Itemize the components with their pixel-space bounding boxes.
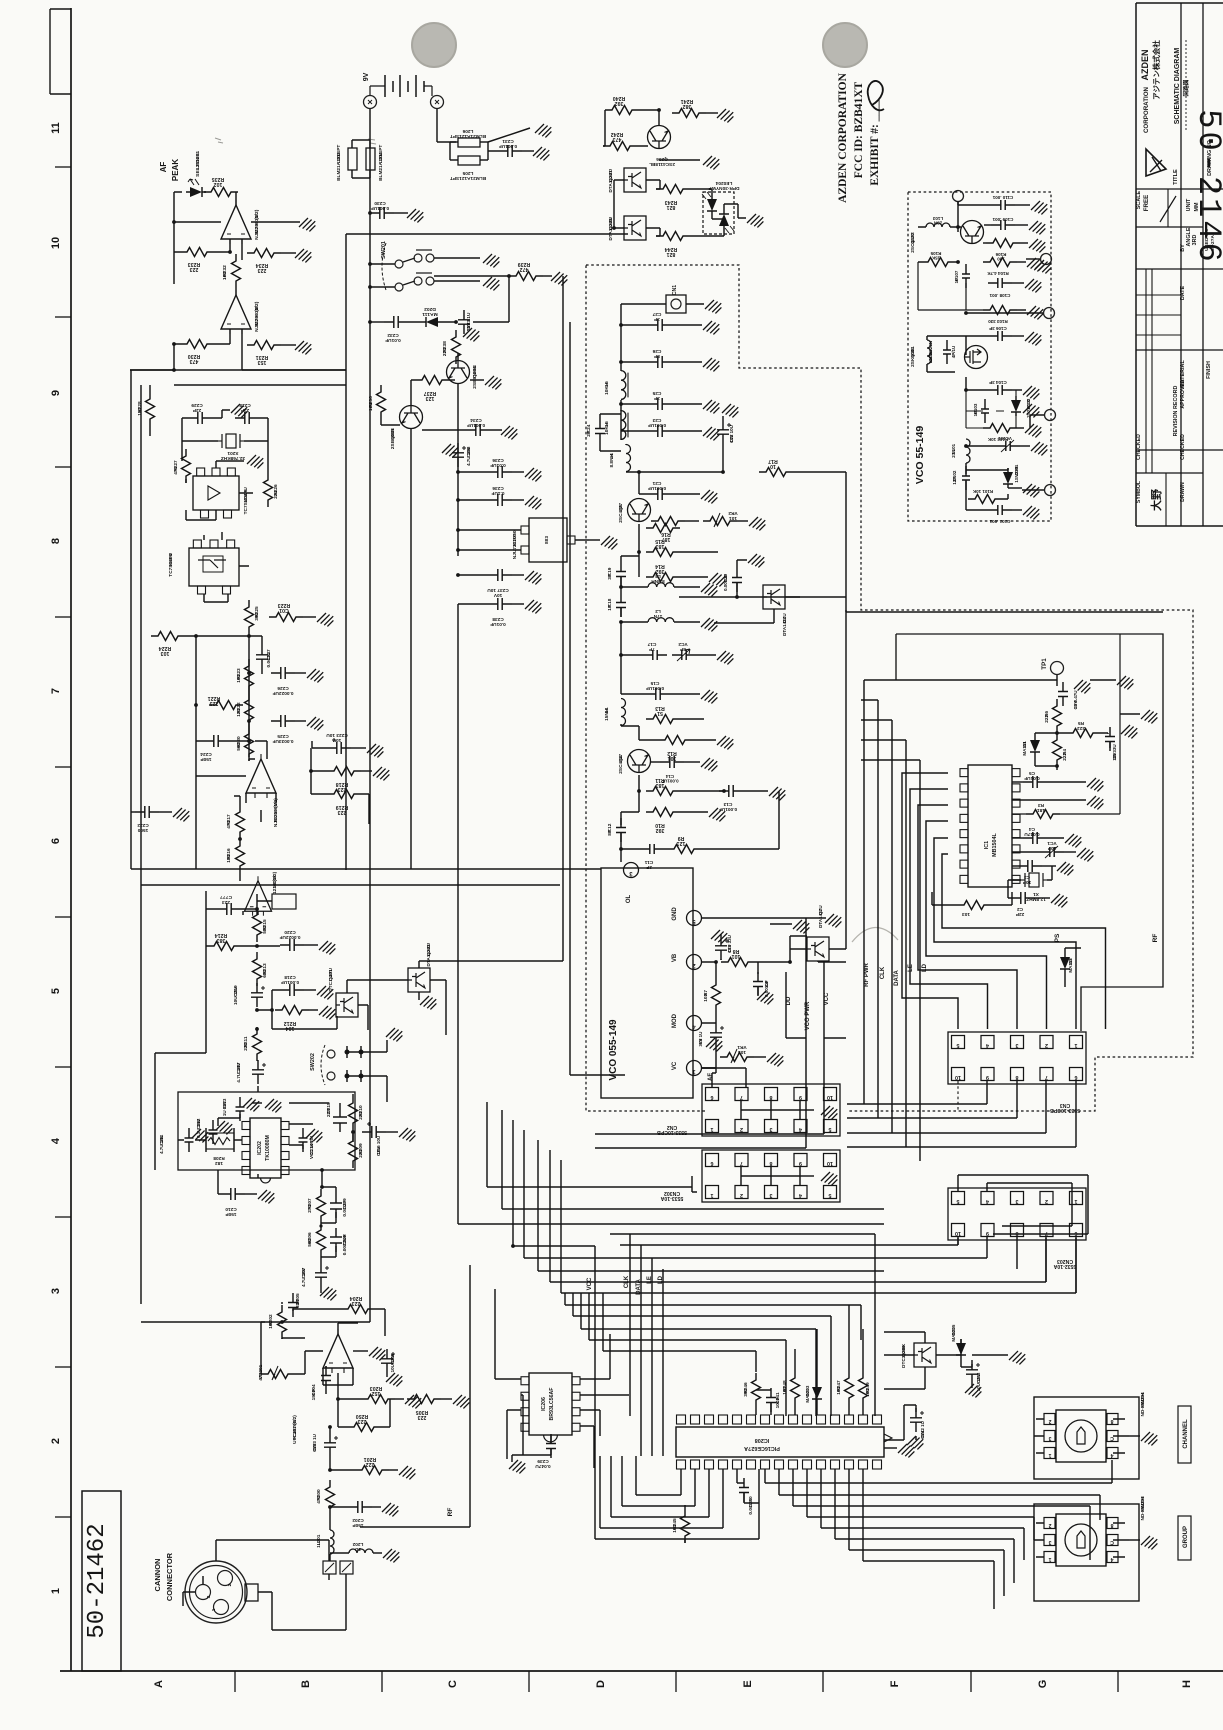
svg-text:222: 222 xyxy=(366,1461,375,1467)
wire opamp IC201 xyxy=(323,1323,358,1373)
svg-text:35V: 35V xyxy=(1073,701,1078,709)
svg-text:NJM2100M: NJM2100M xyxy=(273,802,279,827)
svg-text:1U: 1U xyxy=(316,1541,322,1548)
capacitor C242 1U 35V to ground xyxy=(910,1408,922,1432)
wire IC202 bottom rail xyxy=(258,1170,353,1187)
AZDEN logo mark xyxy=(1146,149,1166,176)
capacitor C9 0.001UF to ground xyxy=(753,972,763,996)
capacitor C225 0.0033UF to ground xyxy=(271,715,295,727)
capacitor C226 0.0022UF to ground xyxy=(271,667,295,679)
svg-text:FCC ID: BZB41XT: FCC ID: BZB41XT xyxy=(853,81,865,178)
wire CN203 bottom pins down xyxy=(958,1237,1076,1293)
svg-text:2P: 2P xyxy=(646,864,652,870)
svg-text:153: 153 xyxy=(137,407,143,415)
svg-text:0.047U: 0.047U xyxy=(266,652,272,668)
wire SW201 to R239 node xyxy=(434,275,509,277)
svg-text:RF: RF xyxy=(447,1508,454,1517)
diode D205 MA111 xyxy=(956,1339,966,1359)
resistor R222 123 xyxy=(245,693,254,727)
svg-text:VCO 055-149: VCO 055-149 xyxy=(608,1019,619,1081)
trimmer VC1 20P to ground xyxy=(1040,847,1064,857)
wire IC207 xyxy=(458,530,589,550)
resistor R106 100 to ground xyxy=(986,239,1020,248)
IC208 top pins xyxy=(677,1415,686,1424)
wire RF feed line xyxy=(330,1526,346,1582)
wire to pin 3 xyxy=(620,849,622,862)
svg-text:32.768KHZ: 32.768KHZ xyxy=(221,455,245,461)
ground (SW201 upper contact) xyxy=(434,257,480,259)
svg-text:DPR-30NYWF: DPR-30NYWF xyxy=(708,185,739,191)
svg-text:18V: 18V xyxy=(727,945,732,953)
capacitor C10 33U 18V to ground xyxy=(715,936,727,960)
capacitor C210 150P to ground xyxy=(221,1188,245,1200)
svg-text:DTA143ZU: DTA143ZU xyxy=(818,905,823,928)
transistor Q207 DTA143ZU (boxed) xyxy=(624,168,646,192)
ferrite bead (right) xyxy=(340,1561,353,1574)
svg-text:222: 222 xyxy=(243,1042,249,1050)
inductor L5 10KH xyxy=(621,411,626,440)
inductor L102 220N xyxy=(927,340,931,364)
svg-text:R230: R230 xyxy=(188,353,201,359)
svg-text:R235: R235 xyxy=(212,176,225,182)
resistor R103 330 to ground xyxy=(983,306,1017,315)
svg-text:3: 3 xyxy=(50,1288,62,1294)
svg-text:17N: 17N xyxy=(653,613,662,619)
svg-text:IC1: IC1 xyxy=(984,841,990,849)
svg-text:3RD: 3RD xyxy=(1192,235,1198,246)
resistor R219 223 xyxy=(327,790,361,799)
wire buses from VCO to right xyxy=(846,610,1163,612)
resistor R246 392 xyxy=(752,1373,761,1407)
svg-text:10: 10 xyxy=(770,463,776,469)
svg-text:AF: AF xyxy=(708,1073,714,1081)
svg-text:473: 473 xyxy=(190,358,199,364)
svg-text:R239: R239 xyxy=(518,261,531,267)
resistor R101 10K xyxy=(968,495,1002,504)
svg-text:SCHEMATIC DIAGRAM: SCHEMATIC DIAGRAM xyxy=(1174,48,1181,125)
potentiometer VR201 473 xyxy=(261,1370,295,1379)
svg-text:3: 3 xyxy=(1015,1042,1018,1048)
svg-text:CLK: CLK xyxy=(624,1275,630,1288)
svg-text:10V: 10V xyxy=(376,1147,381,1155)
punch hole left xyxy=(412,23,456,67)
svg-text:TC7SU04FU: TC7SU04FU xyxy=(243,487,249,515)
crystal X201 32.768KHZ xyxy=(226,434,236,448)
svg-text:121: 121 xyxy=(677,840,686,846)
ferrite bead L205 BLM21A121SPT xyxy=(458,156,480,165)
svg-text:USED ON: USED ON xyxy=(1204,229,1210,251)
wire Q206/D205 xyxy=(884,1339,972,1367)
svg-text:CN1: CN1 xyxy=(672,285,678,295)
svg-text:1: 1 xyxy=(1074,1198,1077,1204)
capacitor C238 0.01UF to ground xyxy=(488,598,512,610)
svg-text:9: 9 xyxy=(799,1160,802,1166)
svg-text:4.7U 18V: 4.7U 18V xyxy=(466,447,471,466)
ground (C22 top) xyxy=(722,416,724,420)
svg-text:0.01UF: 0.01UF xyxy=(385,337,401,343)
svg-text:10: 10 xyxy=(955,1074,961,1080)
svg-text:104: 104 xyxy=(286,1025,295,1031)
transistor Q2 DTA143ZU (boxed) xyxy=(807,937,829,961)
svg-text:22P: 22P xyxy=(193,407,201,413)
svg-text:C101 .001: C101 .001 xyxy=(989,519,1010,524)
VCO 55-149 dashed outline xyxy=(908,192,1051,521)
capacitor C6 1U 35V xyxy=(710,1023,722,1047)
svg-text:VCC: VCC xyxy=(587,1277,593,1290)
VCO55 supply pin (top) xyxy=(953,191,964,202)
svg-text:4.7U 18V: 4.7U 18V xyxy=(159,1135,164,1154)
svg-text:0.001uF: 0.001uF xyxy=(723,574,728,591)
svg-text:PIC16CE62?A: PIC16CE62?A xyxy=(744,1445,780,1451)
border frame left edge xyxy=(70,8,72,1671)
capacitor C15 0.001UF to ground xyxy=(646,688,670,700)
capacitor C215 22P xyxy=(333,1108,347,1132)
connector CN1 xyxy=(666,295,686,313)
capacitor C5 0.01UF to ground xyxy=(1023,776,1047,788)
capacitor C2 22P to ground xyxy=(1011,892,1035,904)
VCO55 pin (right, row3) xyxy=(1044,308,1055,319)
svg-text:0.001UF: 0.001UF xyxy=(719,806,737,812)
svg-text:NJM2903M: NJM2903M xyxy=(254,214,260,240)
resistor R240 392 xyxy=(605,106,639,115)
resistor R3 181 xyxy=(1026,810,1060,819)
svg-text:CANNON: CANNON xyxy=(153,1559,162,1592)
svg-text:11: 11 xyxy=(50,122,62,134)
svg-text:R244: R244 xyxy=(665,246,678,252)
svg-text:10: 10 xyxy=(827,1094,833,1100)
wire Q204 rail down xyxy=(457,430,459,556)
svg-text:8P: 8P xyxy=(607,830,613,836)
svg-text:GND: GND xyxy=(672,907,678,921)
svg-text:100P: 100P xyxy=(775,1397,781,1408)
wire bottom rail y1539 xyxy=(595,1503,759,1543)
svg-text:R250: R250 xyxy=(356,1413,369,1419)
wire CN2 pin links xyxy=(741,1101,800,1120)
svg-text:3: 3 xyxy=(769,1192,772,1198)
svg-text:101: 101 xyxy=(732,953,741,959)
resistor R218 223 to ground xyxy=(327,767,361,776)
ground (SW201 lower contact) xyxy=(434,280,480,282)
svg-text:MM: MM xyxy=(1194,202,1200,212)
svg-text:51: 51 xyxy=(657,710,663,716)
analog switch IC204 TC7S66FU xyxy=(189,548,239,586)
svg-text:DD: DD xyxy=(786,996,792,1005)
wire rail y385 xyxy=(174,384,346,386)
svg-text:150P: 150P xyxy=(311,1389,317,1400)
transistor Q206 DTC363EK (boxed) xyxy=(914,1343,936,1367)
ground (CN2) xyxy=(800,1109,814,1111)
revision record table lines xyxy=(1136,294,1181,296)
capacitor C208 0.0022UF xyxy=(330,1228,342,1252)
svg-text:H: H xyxy=(1181,1680,1193,1688)
inductor L103 23N xyxy=(926,223,950,227)
svg-text:DATE: DATE xyxy=(1180,285,1186,300)
capacitor C235 4.7U 18V xyxy=(452,443,464,467)
capacitor C3 10P to ground xyxy=(1018,860,1042,872)
resistor R200 472 xyxy=(326,1480,335,1514)
svg-text:TP1: TP1 xyxy=(1041,658,1048,670)
svg-text:102: 102 xyxy=(222,272,228,281)
ground (IC205 top) xyxy=(216,461,244,468)
svg-text:101: 101 xyxy=(668,755,677,761)
svg-text:22P: 22P xyxy=(1016,911,1024,917)
svg-text:473: 473 xyxy=(226,820,232,828)
svg-text:VCO 55-149: VCO 55-149 xyxy=(914,426,926,485)
svg-text:R242: R242 xyxy=(611,131,624,137)
svg-text:RF: RF xyxy=(1152,934,1159,943)
wire IC1 left pin routes xyxy=(902,773,958,1029)
wire CN3 bottom pins down xyxy=(847,1081,987,1104)
svg-text:NJM2903M: NJM2903M xyxy=(254,306,260,332)
wire node to C218/R212 xyxy=(257,990,280,1010)
capacitor C205 33P xyxy=(288,1293,298,1317)
svg-text:R16: R16 xyxy=(661,531,671,537)
wire audio in rail xyxy=(141,1302,370,1322)
svg-text:2SB586R: 2SB586R xyxy=(390,428,396,449)
svg-text:1P: 1P xyxy=(973,411,978,417)
potentiometer VR2 101 xyxy=(703,517,737,526)
svg-text:222: 222 xyxy=(1044,714,1050,722)
resistor R16 187 xyxy=(651,517,685,526)
svg-text:183: 183 xyxy=(656,543,665,549)
wire Q203/Q204 collectors xyxy=(411,353,458,430)
svg-text:R219: R219 xyxy=(336,804,349,810)
svg-text:CORPORATION: CORPORATION xyxy=(1143,86,1150,133)
svg-text:103: 103 xyxy=(703,993,709,1001)
ground (SW203 C) xyxy=(1129,1539,1140,1541)
capacitor C23 0.001UF to ground xyxy=(648,425,672,437)
svg-text:472: 472 xyxy=(316,1495,322,1503)
svg-text:1: 1 xyxy=(1074,1042,1077,1048)
svg-text:8.8NH: 8.8NH xyxy=(651,578,665,584)
capacitor C24 2P xyxy=(595,419,605,443)
svg-text:MA111: MA111 xyxy=(1068,958,1073,973)
ground (IC207 out) xyxy=(589,539,600,541)
svg-text:0.0033UF: 0.0033UF xyxy=(272,738,293,744)
svg-text:SW202: SW202 xyxy=(310,1053,316,1071)
svg-text:2SB810BE: 2SB810BE xyxy=(472,365,478,389)
ground (C20 top) xyxy=(737,560,747,568)
resistor R210 223 xyxy=(349,1096,358,1130)
wire battery positive xyxy=(437,109,456,142)
svg-text:AZDEN CORPORATION: AZDEN CORPORATION xyxy=(837,72,849,203)
PLL IC1 MB1504L xyxy=(968,765,1012,887)
svg-text:1: 1 xyxy=(710,1192,713,1198)
regulator IC207 NJU7201U50 xyxy=(529,518,567,562)
wire R8 to Q2 xyxy=(755,936,807,962)
svg-text:223: 223 xyxy=(352,1300,361,1306)
svg-text:MA111: MA111 xyxy=(422,311,438,317)
op-amp IC203 (2/2) NJM2100M xyxy=(245,876,272,916)
wire Q206 area xyxy=(605,110,672,148)
capacitor C219 10U 10V xyxy=(251,983,263,1007)
svg-text:APPROVED: APPROVED xyxy=(1180,379,1186,408)
capacitor C203 1U 35V xyxy=(324,1433,336,1457)
svg-text:C106 3P: C106 3P xyxy=(989,326,1007,331)
svg-text:8: 8 xyxy=(769,1094,772,1100)
svg-text:15NH: 15NH xyxy=(604,708,610,721)
wire main vertical rail x346 xyxy=(345,234,347,870)
capacitor C206 10U 10V to ground xyxy=(381,1349,393,1373)
bus vertical CLK xyxy=(877,700,879,1118)
svg-text:5: 5 xyxy=(828,1126,831,1132)
wire digital bus verticals from audio section xyxy=(458,604,884,1224)
transistor D3 DTA143ZU (boxed) xyxy=(763,585,785,609)
transistor Q201 DTC114TU (boxed) xyxy=(336,993,358,1017)
svg-text:5: 5 xyxy=(956,1198,959,1204)
wire SW201 pole feeds xyxy=(346,264,395,287)
resistor R234 223 to ground xyxy=(247,249,281,258)
EEPROM IC206 BR93LC56AF xyxy=(529,1373,572,1435)
transistor Q4 2SC4227 xyxy=(628,750,651,773)
svg-text:R101 10K: R101 10K xyxy=(972,489,993,494)
svg-text:0.001UF: 0.001UF xyxy=(371,205,389,211)
svg-text:103: 103 xyxy=(672,1524,678,1532)
svg-text:SCALE: SCALE xyxy=(1136,190,1142,209)
wire CN203 top pin loops xyxy=(958,1175,1088,1234)
svg-text:150P: 150P xyxy=(200,756,211,762)
svg-text:C104 3P: C104 3P xyxy=(989,380,1007,385)
svg-text:R218: R218 xyxy=(336,781,349,787)
svg-text:152: 152 xyxy=(372,1390,381,1396)
wire D1/R4 node xyxy=(1035,733,1066,770)
capacitor C223 10U 10V to ground xyxy=(327,742,351,754)
svg-text:103: 103 xyxy=(962,911,970,917)
svg-text:3: 3 xyxy=(1015,1198,1018,1204)
transistor Q5 2SC4227 xyxy=(628,499,651,522)
svg-text:AF: AF xyxy=(159,162,168,173)
svg-text:BLM21A121SPT: BLM21A121SPT xyxy=(450,133,486,139)
svg-text:4: 4 xyxy=(799,1126,802,1132)
resistor R248 103 xyxy=(791,1371,800,1405)
capacitor C104 3P to ground xyxy=(988,385,1012,395)
svg-text:33P: 33P xyxy=(295,1300,301,1308)
capacitor C240 0.01UF xyxy=(739,1478,749,1502)
resistor R232 102 xyxy=(232,254,241,288)
svg-text:582: 582 xyxy=(262,925,268,933)
svg-text:5533-10A: 5533-10A xyxy=(660,1195,683,1201)
capacitor C107 1P xyxy=(962,264,970,288)
svg-text:REVISION RECORD: REVISION RECORD xyxy=(1173,386,1179,437)
wire long audio rails xyxy=(130,344,174,370)
capacitor C101 .001 to ground xyxy=(988,505,1012,515)
resistor R220 562 xyxy=(245,727,254,761)
capacitor C202 1502 to ground xyxy=(348,1501,372,1513)
svg-text:1500: 1500 xyxy=(137,827,148,833)
bus vertical LE xyxy=(905,740,907,1147)
svg-text:DTA143ZU: DTA143ZU xyxy=(782,613,787,636)
svg-text:10: 10 xyxy=(50,237,62,249)
capacitor C217 4.7U 18V xyxy=(252,1060,264,1084)
diode D203 MA111 xyxy=(812,1383,822,1403)
svg-text:7: 7 xyxy=(50,688,62,694)
inductor L4 8.8NH xyxy=(626,445,631,472)
svg-text:50-21462: 50-21462 xyxy=(84,1523,111,1638)
capacitor C212 0.1U 35V xyxy=(209,1120,218,1144)
svg-text:CHANNEL: CHANNEL xyxy=(1183,1419,1189,1449)
resistor R226 224 xyxy=(264,473,273,507)
svg-text:R8: R8 xyxy=(733,948,740,954)
svg-text:4P/1U: 4P/1U xyxy=(951,346,956,359)
resistor R206 562 xyxy=(317,1223,326,1257)
resistor R9 121 xyxy=(667,845,701,854)
svg-text:8: 8 xyxy=(1015,1074,1018,1080)
svg-text:SYMBOL: SYMBOL xyxy=(1136,480,1142,503)
capacitor C18 1P xyxy=(616,593,626,617)
mute block small box xyxy=(272,894,296,909)
svg-text:2: 2 xyxy=(1048,1522,1051,1528)
resistor R11 183 xyxy=(646,787,680,796)
svg-text:DATA: DATA xyxy=(636,1278,642,1294)
svg-text:0.01UF: 0.01UF xyxy=(490,462,506,468)
svg-text:C109 .001: C109 .001 xyxy=(992,217,1013,222)
wire battery negative down xyxy=(369,109,371,1322)
ground (L206 top) xyxy=(488,128,530,142)
svg-text:2SC4227: 2SC4227 xyxy=(910,233,916,253)
svg-text:392: 392 xyxy=(615,100,624,106)
svg-text:0.047U: 0.047U xyxy=(535,1463,551,1469)
capacitor C213 1U 35V to ground xyxy=(236,1097,245,1121)
svg-text:475: 475 xyxy=(173,466,179,474)
svg-text:MB1504L: MB1504L xyxy=(992,832,998,856)
resistor R223b 103 xyxy=(245,659,254,693)
VCO pin 5 GND xyxy=(687,911,702,926)
transistor Q203 2SB586R xyxy=(400,406,423,429)
svg-text:R243: R243 xyxy=(665,199,678,205)
wire crystal loop xyxy=(182,418,268,441)
svg-text:AZDEN: AZDEN xyxy=(1140,50,1150,81)
capacitor C236 0.01UF to ground xyxy=(488,466,512,478)
column tick marks (bottom) xyxy=(234,1671,236,1692)
svg-text:103: 103 xyxy=(738,1049,746,1055)
svg-text:35V: 35V xyxy=(312,1444,317,1452)
svg-text:5: 5 xyxy=(956,1042,959,1048)
svg-text:0.047U: 0.047U xyxy=(1024,831,1040,837)
svg-text:8: 8 xyxy=(769,1160,772,1166)
svg-text:R305: R305 xyxy=(416,1409,429,1415)
svg-text:VCC 10V: VCC 10V xyxy=(309,1140,314,1159)
resistor R241 392 to ground xyxy=(672,109,706,118)
dashed boundary RF section xyxy=(586,265,1193,1111)
svg-text:R214: R214 xyxy=(215,932,228,938)
svg-text:223: 223 xyxy=(210,700,219,706)
svg-text:ND-FR10H: ND-FR10H xyxy=(1140,1496,1146,1520)
resistor R211 222 xyxy=(253,1027,262,1061)
svg-text:222: 222 xyxy=(1062,752,1068,760)
svg-text:0.0022UF: 0.0022UF xyxy=(279,934,300,940)
capacitor C204 150P xyxy=(321,1366,331,1390)
svg-text:7: 7 xyxy=(1045,1074,1048,1080)
svg-text:0.001UF: 0.001UF xyxy=(646,685,664,691)
svg-text:0.0022UF: 0.0022UF xyxy=(272,690,293,696)
capacitor C27 3P to ground xyxy=(648,319,672,331)
wire D3 to bus xyxy=(714,597,846,623)
capacitor C221 223 xyxy=(217,903,241,915)
svg-text:R240: R240 xyxy=(613,95,626,101)
wire VCO PWR / VCC verticals xyxy=(785,962,787,1038)
svg-text:6: 6 xyxy=(710,1160,713,1166)
capacitor C21 0.001UF to ground xyxy=(648,488,672,500)
resistor R5 222 xyxy=(1066,729,1100,738)
wire IC204 connections xyxy=(204,532,249,602)
capacitor C4 0.047U to ground xyxy=(1023,832,1047,844)
svg-text:PS: PS xyxy=(1054,933,1061,942)
ground (Q202 emitter) xyxy=(418,992,420,1000)
ground (Q206 emitter) xyxy=(659,159,700,161)
svg-text:103: 103 xyxy=(865,1388,871,1396)
capacitor C11 2P xyxy=(640,844,664,854)
resistor R224 103 xyxy=(151,632,185,641)
